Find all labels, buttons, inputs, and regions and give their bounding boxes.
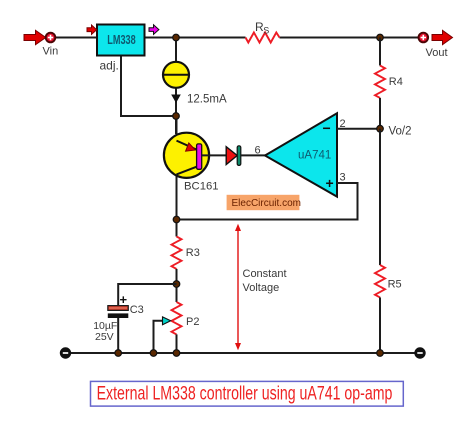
svg-text:3: 3 [340,172,346,184]
node H junction top right [377,34,384,41]
wire transistor base to diode [202,154,227,156]
wire transistor collector down to R3 top [176,174,178,237]
svg-text:R3: R3 [186,247,200,259]
svg-text:+: + [120,292,128,307]
wire junction H down to R4 [379,38,381,66]
wire junction A down to current source [175,38,177,64]
transistor Q1 base bar [197,144,202,169]
wire top rail Rs to Vout [280,37,419,39]
node F ground wiper [150,350,157,357]
svg-text:ElecCircuit.com: ElecCircuit.com [232,198,301,209]
node Vo2 [377,125,412,137]
wire R3 bottom to node D [176,269,178,302]
node B junction adj [173,113,180,120]
node A junction top rail [173,34,180,41]
svg-text:6: 6 [255,145,261,157]
wire P2 bottom to ground rail [176,334,178,353]
wire top rail Vin to LM338 [55,37,97,39]
svg-text:Vin: Vin [43,46,59,58]
wire R5 to ground rail [379,297,381,353]
caption box [91,381,404,406]
regulator U1 LM338 [97,25,145,73]
svg-text:C3: C3 [130,304,144,316]
svg-text:25V: 25V [95,331,114,343]
svg-text:Constant: Constant [243,268,287,280]
svg-text:Vo/2: Vo/2 [389,126,412,138]
wire P2 wiper [154,321,163,353]
node G ground P2 [173,350,180,357]
wire top rail LM338 to Rs [145,37,246,39]
wire adj pin of LM338 down and right to node B [121,56,176,117]
wire C3 bottom to ground rail [117,318,119,353]
wire op-amp pin 3 feedback down and left to node C [177,183,358,220]
svg-text:adj.: adj. [100,58,119,72]
capacitor C3 [93,292,144,343]
wire node D to capacitor C3 [118,284,176,305]
svg-text:External LM338 controller usin: External LM338 controller using uA741 op… [97,382,393,404]
op-amp U2 uA741 [255,113,346,196]
transistor Q1 emitter lead [177,141,198,150]
input arrow red [24,30,46,44]
potentiometer P2 [154,302,200,353]
svg-text:12.5mA: 12.5mA [187,94,227,106]
svg-text:BC161: BC161 [184,181,219,193]
svg-text:+: + [326,175,334,191]
wire node B through transistor down to R3 [176,116,178,141]
node D junction C3 tap [173,281,180,288]
resistor Rs [246,20,280,43]
wire R4 to node Vo2 [379,98,381,130]
resistor R4 [375,66,403,98]
svg-text:uA741: uA741 [298,150,331,162]
terminal ground left [61,348,71,358]
node C junction feedback [173,216,180,223]
wire node Vo2 down to R5 [379,129,381,265]
diode D1 [226,146,241,166]
svg-text:Voltage: Voltage [243,282,280,294]
small magenta arrow at LM338 output [149,25,159,35]
node E ground C3 [115,350,122,357]
terminal Vout [419,33,448,59]
svg-text:Vout: Vout [426,47,448,59]
badge ElecCircuit.com [227,195,301,210]
transistor Q1 emitter arrow [186,143,196,151]
constant voltage double arrow [235,224,287,350]
potentiometer P2 wiper arrow [163,317,171,325]
wire diode cathode to op-amp pin 6 [241,154,266,156]
wire op-amp pin 2 to node Vo/2 [337,128,380,130]
svg-text:R4: R4 [389,76,403,88]
resistor R5 [375,265,402,297]
svg-text:LM338: LM338 [107,34,135,48]
node I ground R5 [377,350,384,357]
terminal ground right [415,348,425,358]
output arrow red [432,30,453,44]
wire current source to node B [175,87,177,134]
transistor Q1 BC161 [164,133,219,193]
svg-text:P2: P2 [186,316,199,328]
terminal Vin [43,33,59,58]
small red arrow above LM338 input [87,25,97,34]
transistor Q1 collector lead [177,167,198,175]
resistor R3 [172,237,200,269]
ground rail [71,352,415,354]
svg-text:R5: R5 [388,279,402,291]
svg-text:−: − [323,120,331,136]
current source 12.5mA [163,62,227,106]
svg-text:S: S [263,26,269,36]
